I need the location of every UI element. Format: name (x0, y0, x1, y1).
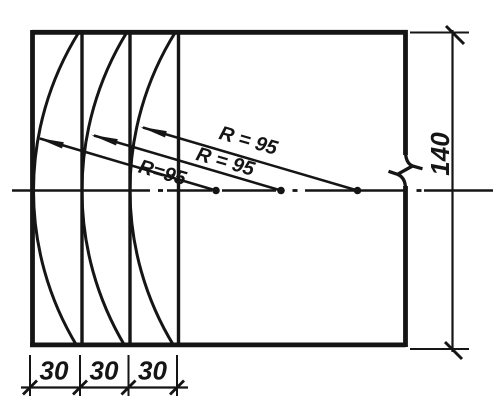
bottom tick 1 (23, 381, 37, 395)
arrowhead A (37, 138, 64, 149)
bottom tick 2 (73, 381, 87, 395)
vertical division line at x=130 (128, 32, 131, 347)
centerline small dot 1 (158, 189, 163, 192)
bottom dimension: extension line 4 (176, 355, 178, 396)
right dimension tick bottom (445, 342, 462, 359)
svg-text:30: 30 (40, 356, 69, 386)
arrowhead B (91, 135, 118, 146)
svg-text:30: 30 (90, 356, 119, 386)
right dimension tick top (446, 26, 464, 44)
center dot A (212, 187, 220, 195)
vertical division line at x=82 (80, 32, 83, 347)
arc 3 (R=95 curve, rightmost) (130, 32, 176, 346)
vertical division line at x=178.5 (177, 32, 180, 347)
bottom dimension: extension line 2 (79, 355, 81, 396)
leader line A from center dot to arc 1 (40, 139, 216, 191)
bottom tick 4 (170, 381, 184, 395)
leader line C from center dot to arc 3 (143, 128, 358, 191)
break symbol (zigzag) on right edge (389, 151, 423, 189)
centerline small dot 3 (417, 189, 422, 192)
svg-text:140: 140 (425, 132, 455, 176)
arc 1 (R=95 curve, leftmost) (33, 32, 79, 346)
leader line B from center dot to arc 2 (94, 136, 281, 191)
bottom tick 3 (122, 381, 136, 395)
center dot C (354, 187, 362, 195)
centerline small dot 2 (293, 189, 298, 192)
right dimension: top extension line (410, 32, 469, 34)
right dimension line (vertical) (451, 30, 453, 352)
horizontal dash-dot centerline y=190.5 (12, 189, 493, 191)
svg-text:30: 30 (138, 356, 167, 386)
right dimension: bottom extension line (410, 348, 469, 350)
bottom dimension line (21, 386, 188, 388)
arc 2 (R=95 curve, middle) (82, 32, 127, 346)
center dot B (277, 187, 285, 195)
arrowhead C (140, 127, 167, 138)
bottom dimension: extension line 1 (29, 355, 31, 396)
bottom dimension: extension line 3 (128, 355, 130, 396)
rectangle outline (thick border, right edge interrupted by break) (30, 30, 406, 347)
